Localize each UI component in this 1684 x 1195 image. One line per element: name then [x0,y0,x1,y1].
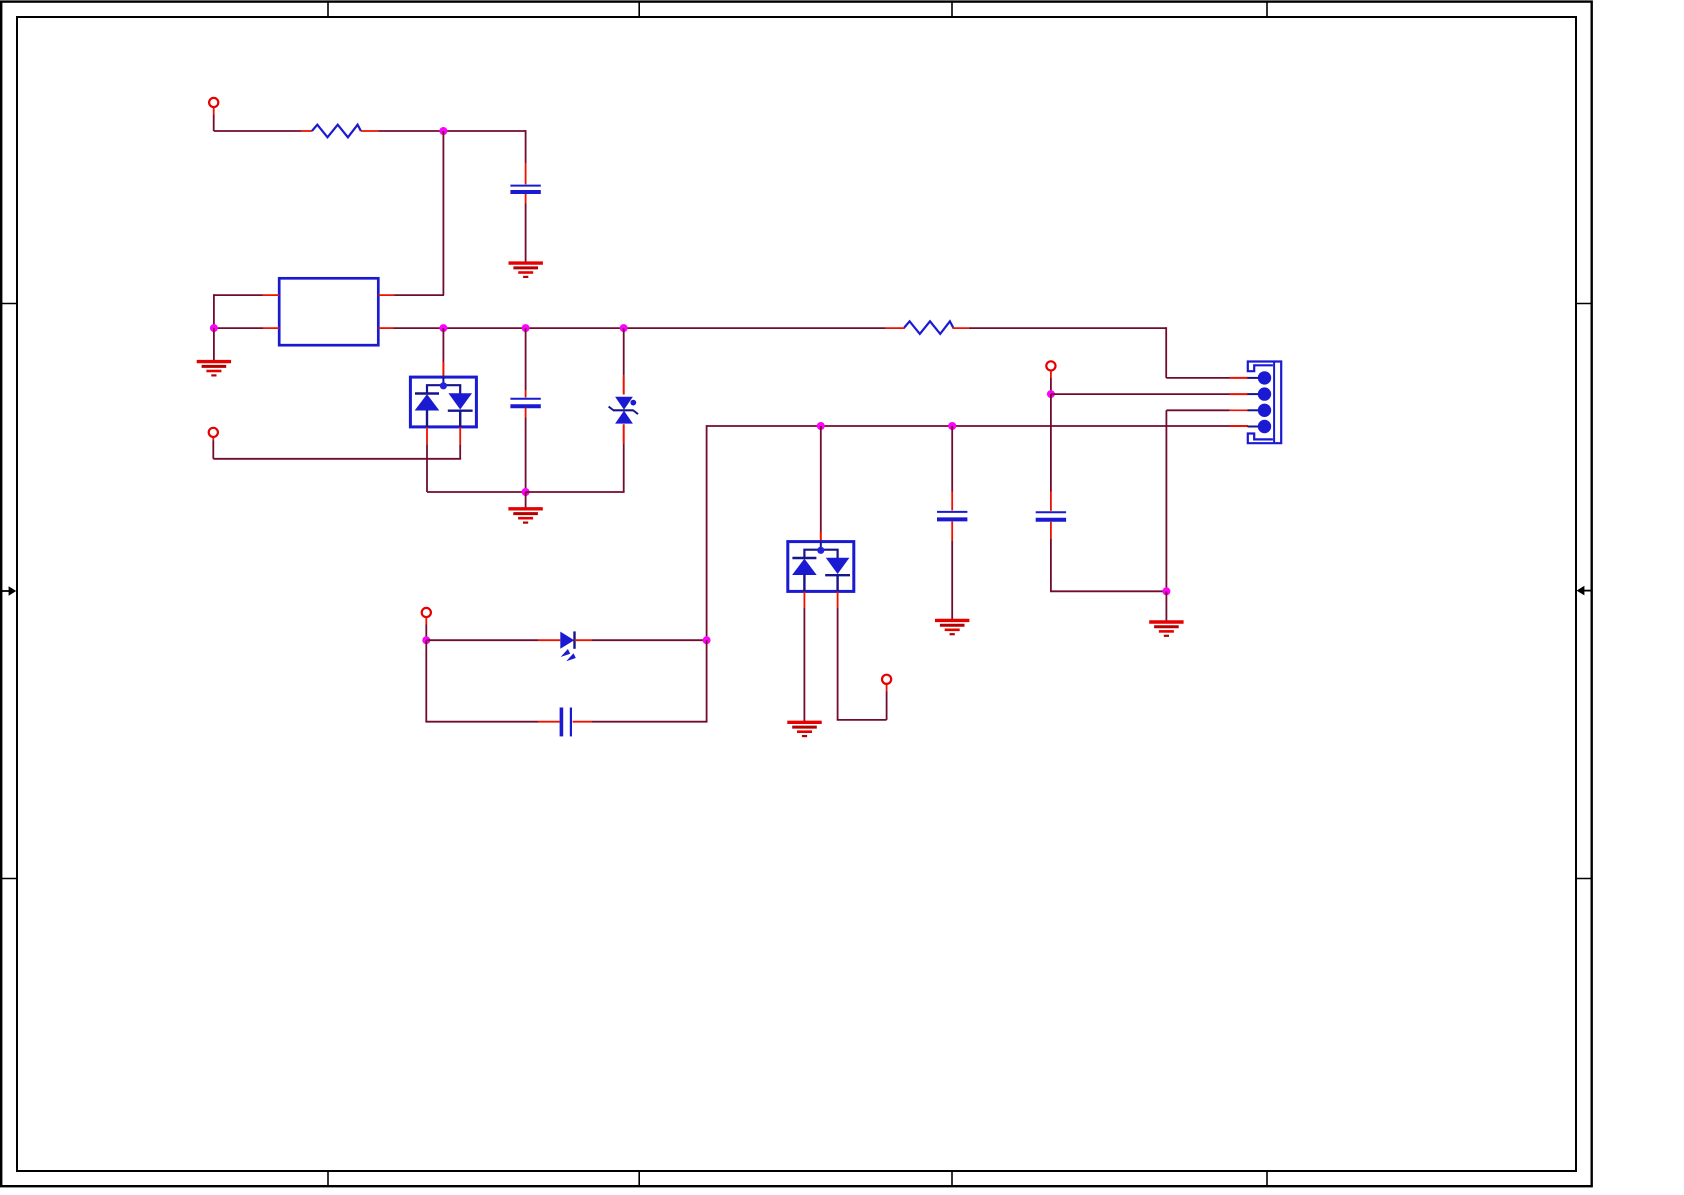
capacitor C1 [510,186,540,192]
lead C5 left [538,721,560,723]
wire bus U1 to R2 [394,327,886,329]
node A junction [439,127,447,135]
terminal P4 [1046,361,1055,370]
node B junction [210,324,218,332]
lead C1 bottom [525,194,527,204]
node I junction [1047,390,1055,398]
lead U1 left-bottom [263,327,279,329]
top edge zone tick x=639.2 [638,2,640,17]
wire bottom row right segment [592,721,708,723]
wire P5 to node K [425,625,427,641]
wire node J to ground [1165,591,1167,621]
top edge zone tick x=328 [327,2,329,17]
resistor R1 [312,125,361,138]
lead D4 left [538,639,560,641]
lead P3 stub [886,684,888,692]
node C junction [439,324,447,332]
wire connector pin3 [1166,409,1229,411]
wire zener down to row [623,443,625,492]
left edge zone tick y=303.5 [0,303,17,305]
wire U1 left-top pin [214,294,263,296]
lead R2 right [952,327,968,329]
wire node D down [525,328,527,390]
lead D3 top [820,532,822,542]
wire R1 to node A [379,130,444,132]
lead D1 left bottom [426,427,428,444]
wire node I to connector pin2 [1051,393,1230,395]
lead U1 right-top [378,294,394,296]
lead D1 top [442,362,444,377]
wire bottom row left segment [425,721,538,723]
capacitor C2 [510,399,540,406]
lead C4 bottom [1050,522,1052,539]
lead C2 top [525,390,527,397]
led D4 triangle [560,632,574,649]
wire node I down [1050,394,1052,491]
node E junction [620,324,628,332]
lead C3 top [951,492,953,511]
connector CN1 pin1 [1248,371,1272,384]
lead C5 right [573,721,592,723]
wire C4 to node J [1050,539,1166,591]
lead P4 stub [1050,371,1052,378]
lead connector pin1 [1230,377,1249,379]
wire P1 to R1 [214,130,301,132]
node H junction [948,422,956,430]
component box U1 [279,278,378,345]
resistor R2 [904,321,953,334]
node D junction [522,324,530,332]
wire left-top down to node B [213,294,215,328]
ground GND3 [508,509,542,523]
wire C3 to ground [951,541,953,619]
lead R1 right [361,130,379,132]
terminal P2 [209,428,218,437]
lead R2 left [886,327,905,329]
wire C2 to node F [525,418,527,493]
wire node L down to bottom row [706,640,708,722]
lead zener bottom [623,424,625,443]
wire D1-left to node F [427,491,526,493]
ground GND5 [935,620,969,634]
connector CN1 pin3 [1248,404,1272,417]
node K junction [422,636,430,644]
lead C2 bottom [525,408,527,418]
right edge zone tick y=303.5 [1576,303,1592,305]
wire up to node K [425,640,427,722]
twin diode D1 [410,377,476,427]
wire node F to zener column [526,491,625,493]
bottom edge zone tick x=328 [327,1171,329,1186]
lead D3 left bottom [803,591,805,608]
wire D3 left to ground [803,608,805,721]
node J junction [1162,587,1170,595]
wire node E down [623,328,625,376]
lead D1 right bottom [459,427,461,444]
lead connector pin3 [1230,409,1249,411]
bottom edge zone tick x=1267 [1266,1171,1268,1186]
wire node K to D4 [426,639,538,641]
lead D3 right bottom [837,591,839,608]
lead U1 left-top [263,294,280,296]
wire P1 stub [213,107,215,131]
lead connector pin4 [1230,425,1249,427]
wire D1 left down [426,444,428,492]
top edge zone tick x=952 [951,2,953,17]
wire corner down to pin1 row [1165,327,1167,378]
wire U1 right-top to vertical [395,294,445,296]
wire bus2 [707,425,1230,427]
lead C4 top [1050,492,1052,511]
tvs zener D2 bar [609,407,638,415]
wire to connector pin1 [1166,377,1229,379]
wire node F to ground [525,492,527,508]
capacitor C5 [561,708,571,737]
wire D1 right to P2 row [213,441,461,459]
terminal P5 [422,608,431,617]
twin diode D3 [788,542,854,592]
capacitor C4 [1036,512,1066,520]
wire bus2 corner down [706,425,708,640]
wire node B to ground [213,328,215,361]
tvs zener D2 bottom triangle [615,411,633,424]
lead P2 stub [212,437,214,441]
ground GND2 [197,362,231,376]
wire node G down to D3 [820,426,822,532]
led D4 arrows [561,649,576,661]
lead C1 top [525,163,527,184]
ground GND6 [1149,622,1183,636]
node L junction [703,636,711,644]
right edge center arrow [1577,586,1593,596]
wire R2 to corner [969,327,1166,329]
node G junction [817,422,825,430]
lead P5 stub [425,617,427,624]
lead U1 right-bottom [378,327,393,329]
connector CN1 pin4 [1248,420,1272,433]
tvs zener D2 top triangle [615,397,633,410]
ground GND1 [509,263,543,277]
wire D3 right to P3 [837,608,887,720]
wire D4 to node L [592,639,707,641]
tvs zener D2 polarity dot [630,400,636,406]
lead D4 right [575,639,593,641]
wire node A down to U1 pin [442,131,444,295]
lead R1 left [301,130,312,132]
terminal P1 [209,98,218,107]
right edge zone tick y=878.5 [1576,878,1592,880]
wire node C down [442,328,444,362]
wire pin3 down to node J [1165,410,1167,591]
lead connector pin2 [1230,393,1249,395]
lead zener top [623,376,625,395]
ground GND4 [787,722,821,736]
wire node H down [951,426,953,492]
terminal P3 [882,675,891,684]
wire P4 to node I [1050,378,1052,394]
wire C1 to ground [525,204,527,263]
left edge zone tick y=878.5 [0,878,17,880]
wire node B to U1 left-bottom pin [214,327,263,329]
lead C3 bottom [951,521,953,541]
led D4 cathode bar [573,631,575,648]
capacitor C3 [937,512,967,520]
connector CN1 pin2 [1248,387,1272,400]
top edge zone tick x=1267 [1266,2,1268,17]
bottom edge zone tick x=952 [951,1171,953,1186]
node F junction [522,488,530,496]
wire node A to C1 top [443,130,525,163]
left edge center arrow [0,586,16,596]
connector CN1 outline [1248,362,1281,444]
bottom edge zone tick x=639.2 [638,1171,640,1186]
